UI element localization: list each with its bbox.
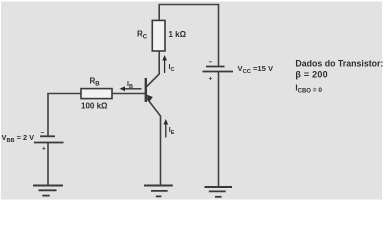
resistor RB — [81, 89, 112, 99]
transistor Q1 (PNP) base bar — [145, 78, 147, 102]
svg-text:+: + — [42, 146, 46, 153]
ground (emitter) — [144, 186, 173, 197]
svg-text:100 kΩ: 100 kΩ — [81, 102, 108, 111]
ground (VBB side) — [33, 186, 63, 196]
svg-text:β = 200: β = 200 — [295, 69, 328, 79]
svg-text:−: − — [209, 59, 213, 66]
svg-text:+: + — [209, 75, 213, 82]
current arrow IE — [165, 123, 167, 138]
wire from VBB to RB — [48, 94, 81, 137]
svg-text:−: − — [41, 130, 45, 137]
wire collector vertical — [146, 51, 159, 87]
current arrow IC — [164, 59, 166, 74]
battery VCC — [203, 67, 234, 72]
wire top rail — [159, 5, 218, 67]
wire base left segment — [112, 93, 146, 95]
resistor RC — [152, 20, 165, 51]
svg-text:1 kΩ: 1 kΩ — [169, 30, 187, 39]
ground (VCC side) — [205, 187, 233, 197]
battery VBB — [34, 136, 64, 142]
svg-text:Dados do Transistor:: Dados do Transistor: — [295, 59, 383, 69]
wire emitter — [146, 98, 160, 186]
current arrow IB — [123, 88, 142, 90]
wire VBB to ground — [47, 143, 49, 186]
transistor Q1 emitter arrow (PNP, pointing into base) — [147, 95, 153, 102]
wire VCC to ground — [218, 72, 220, 187]
